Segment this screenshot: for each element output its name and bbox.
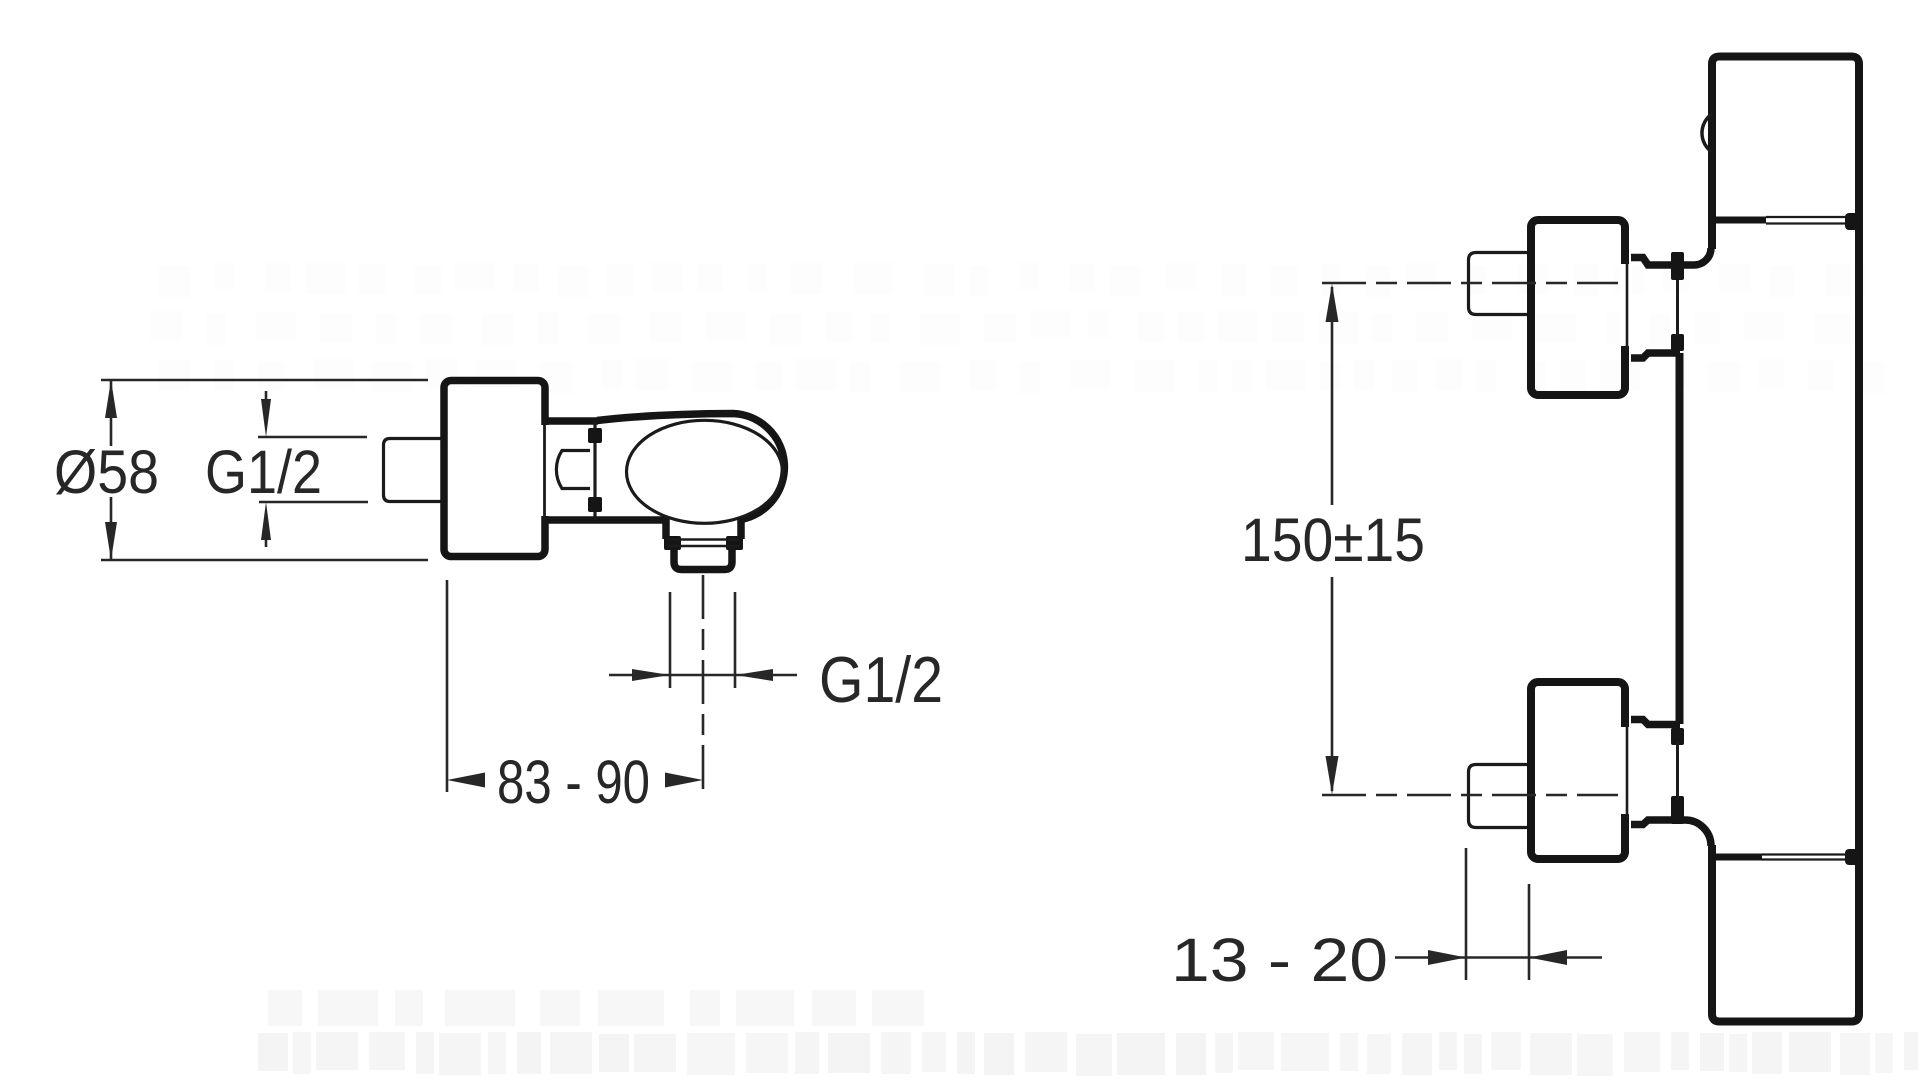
extension line knob face — [1465, 848, 1468, 980]
bottom valve plate — [1531, 682, 1625, 859]
outlet flange right — [737, 518, 745, 539]
extension line outlet left — [669, 592, 672, 688]
outlet flange step left — [664, 536, 681, 550]
dimension line G1/2 inlet lower — [259, 501, 368, 504]
watermark band lower — [258, 990, 1918, 1076]
bottom centerline — [1322, 794, 1618, 797]
wall plate — [444, 381, 545, 557]
bottom seam — [1712, 854, 1762, 861]
bottom connector pipe edge — [1676, 742, 1679, 800]
inlet pipe — [384, 439, 447, 502]
dimension line Ø58 bottom extension — [101, 559, 428, 562]
outlet flange step right — [726, 536, 743, 550]
stop knob — [556, 451, 590, 489]
bottom connector tab upper — [1671, 728, 1684, 745]
top valve plate — [1531, 220, 1625, 395]
dimension line Ø58 top extension — [101, 379, 428, 382]
column inlet arc — [1702, 114, 1712, 152]
bottom valve knob — [1469, 765, 1528, 828]
neck top edge — [545, 417, 598, 425]
dimension line 13-20 — [1395, 956, 1602, 959]
top connector pipe edge — [1676, 280, 1679, 336]
arrow G1/2 inlet down — [265, 391, 268, 402]
supply pipe between valves — [1676, 353, 1684, 724]
dimension line G1/2 inlet upper — [258, 436, 367, 439]
arrow G1/2 inlet up — [265, 538, 268, 547]
svg-text:G1/2: G1/2 — [819, 643, 943, 716]
top centerline — [1322, 282, 1618, 285]
top valve connector lower edge — [1631, 353, 1680, 358]
extension line plate face — [1528, 884, 1531, 980]
outlet nut — [674, 549, 732, 570]
arrow Ø58 up — [105, 380, 117, 418]
bottom valve connector upper edge — [1631, 720, 1680, 725]
dimension line 150±15 — [1331, 287, 1334, 505]
dimension line Ø58 vertical — [110, 381, 113, 446]
svg-text:G1/2: G1/2 — [205, 438, 322, 506]
top connector tab lower — [1671, 334, 1684, 351]
dimension line G1/2 outlet — [609, 674, 797, 677]
arrow Ø58 down — [105, 522, 117, 560]
top seam — [1712, 217, 1766, 224]
plate rear edge — [543, 421, 546, 520]
watermark band upper — [150, 262, 1884, 394]
outlet seam lines — [668, 538, 739, 541]
dimension 83-90 arrows — [447, 773, 485, 788]
extension line outlet right — [734, 592, 737, 688]
svg-text:150±15: 150±15 — [1241, 506, 1425, 574]
extension line plate left — [446, 580, 449, 792]
outlet centerline — [702, 575, 705, 790]
svg-text:Ø58: Ø58 — [54, 438, 159, 506]
joint tab lower — [588, 497, 602, 512]
body bottom edge — [545, 516, 666, 524]
top connector tab upper — [1671, 252, 1684, 280]
cartridge ellipse — [627, 420, 783, 523]
bottom connector tab lower — [1671, 796, 1684, 824]
outlet flange left — [662, 518, 670, 539]
joint tab upper — [588, 428, 602, 443]
svg-text:13 - 20: 13 - 20 — [1171, 926, 1388, 994]
bottom valve connector lower edge — [1631, 820, 1711, 846]
svg-text:83 - 90: 83 - 90 — [497, 748, 650, 816]
top valve connector upper edge — [1631, 248, 1711, 265]
shower column bar outline — [1712, 57, 1859, 1022]
head outline — [597, 414, 784, 520]
top valve knob — [1469, 253, 1528, 315]
joint line — [593, 421, 596, 520]
